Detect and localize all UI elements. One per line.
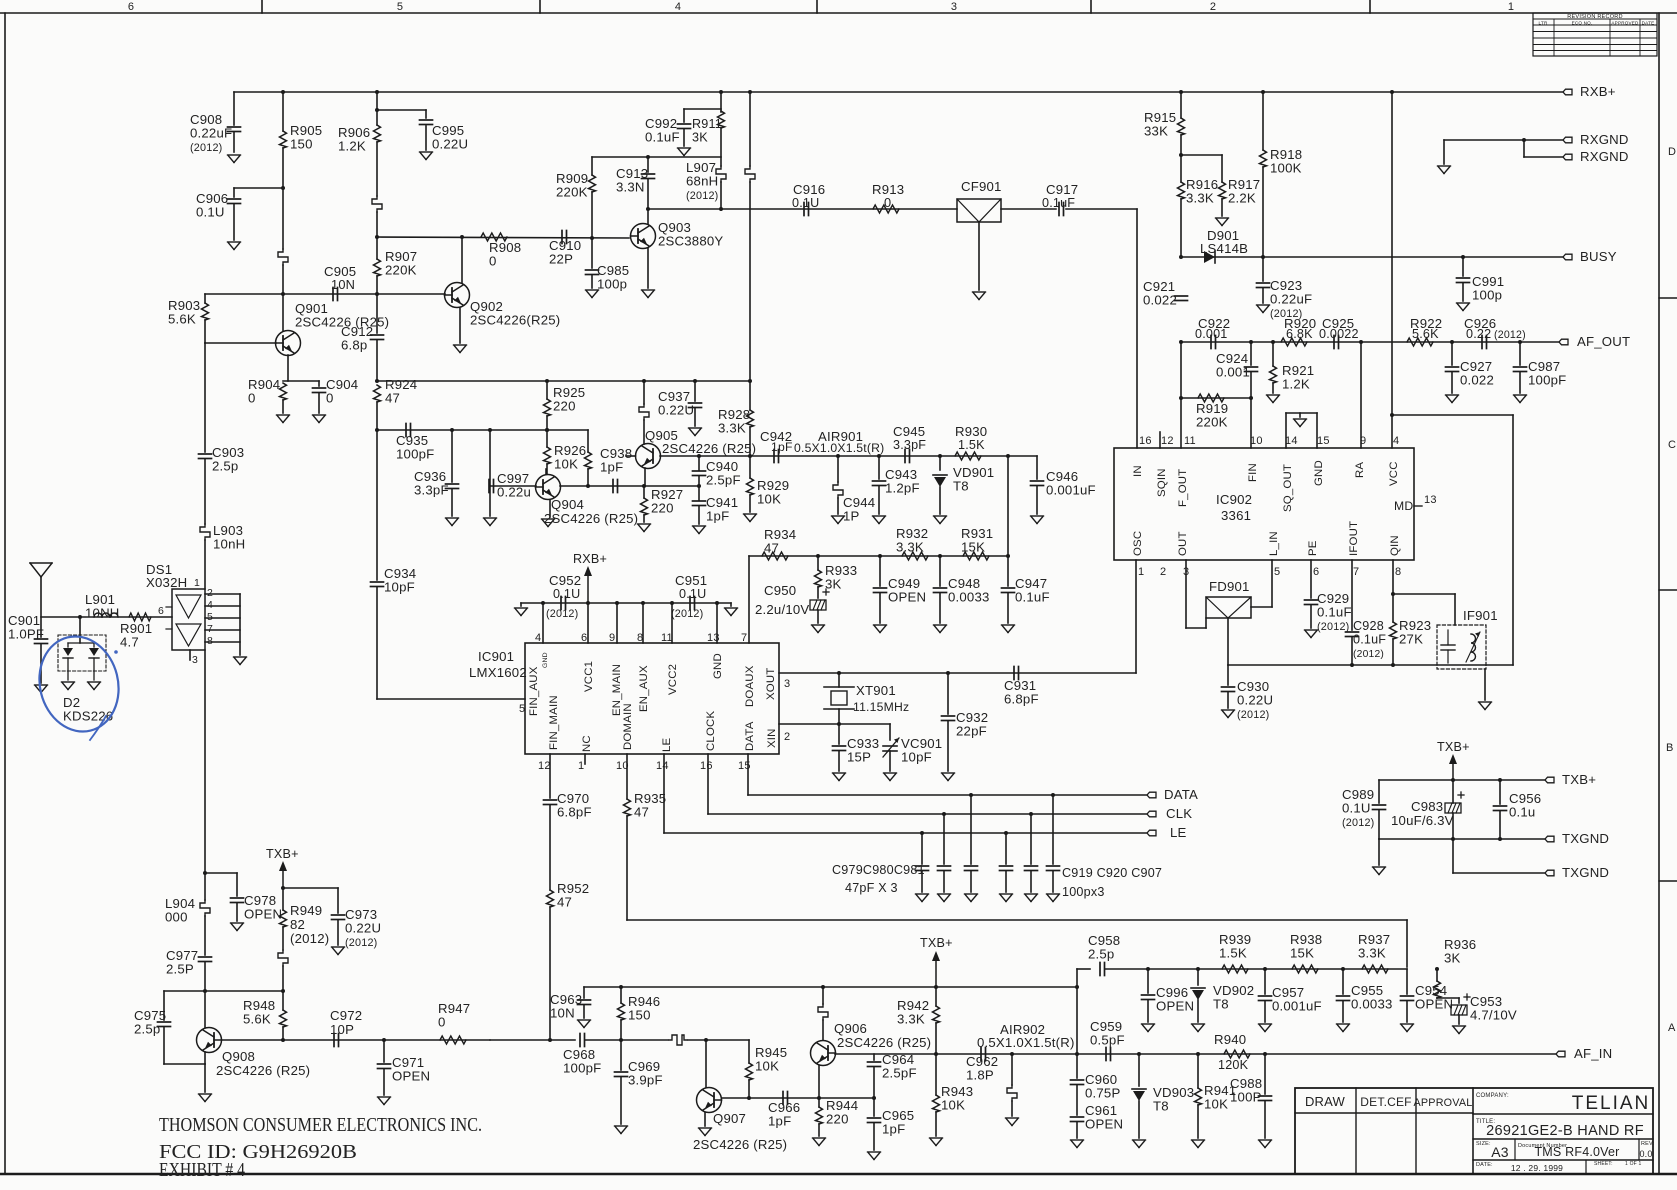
- label C923: [1270, 278, 1312, 320]
- svg-text:OPEN: OPEN: [392, 1069, 430, 1084]
- node: [586, 601, 590, 605]
- wire: [1197, 1105, 1199, 1138]
- node: [934, 1052, 938, 1056]
- wire: [873, 1054, 875, 1060]
- ground: [833, 773, 846, 781]
- wire: [873, 1098, 875, 1116]
- resistor R945: [746, 1063, 753, 1080]
- label IC902v: [1221, 508, 1251, 523]
- ground: [313, 415, 326, 423]
- wire: [644, 485, 699, 487]
- wire RXGND: [1444, 139, 1563, 141]
- svg-text:FIN: FIN: [1247, 463, 1259, 482]
- label C933: [847, 736, 879, 765]
- label R932: [896, 526, 928, 555]
- ground: [88, 682, 101, 690]
- power arrow TXB+ mid: [920, 936, 953, 987]
- wire C995 branch: [377, 109, 426, 111]
- node: [1179, 340, 1183, 344]
- svg-text:100px3: 100px3: [1062, 885, 1105, 899]
- node: [615, 601, 619, 605]
- svg-text:T8: T8: [953, 479, 969, 494]
- capacitor C962: [981, 1048, 986, 1061]
- label C926: [1464, 316, 1496, 331]
- svg-text:0: 0: [326, 391, 334, 406]
- resistor R944: [816, 1107, 823, 1124]
- ground: [1514, 395, 1527, 403]
- wire: [1007, 593, 1009, 623]
- ground: [1222, 710, 1235, 718]
- label Q908v: [216, 1063, 310, 1078]
- resistor R925: [544, 399, 551, 416]
- label R939: [1219, 932, 1251, 961]
- wire Q904 output: [560, 485, 644, 487]
- wire: [489, 486, 491, 516]
- svg-text:L_IN: L_IN: [1268, 531, 1280, 556]
- transistor Q903: [631, 224, 656, 249]
- svg-text:10K: 10K: [755, 1059, 779, 1074]
- label IF901: [1463, 608, 1498, 623]
- ground: [277, 415, 290, 423]
- svg-text:LS414B: LS414B: [1200, 241, 1248, 256]
- node: [1451, 837, 1455, 841]
- label R933: [825, 563, 857, 592]
- svg-text:IF901: IF901: [1463, 608, 1498, 623]
- ground: [884, 773, 897, 781]
- node: [1498, 778, 1502, 782]
- power arrow TXB+ right: [1437, 740, 1470, 780]
- wire VCC net: [1391, 92, 1393, 448]
- wire: [1452, 813, 1454, 839]
- svg-text:10K: 10K: [1204, 1097, 1228, 1112]
- node: [646, 207, 650, 211]
- node: [281, 886, 285, 890]
- label R916: [1186, 177, 1218, 206]
- label TXB+ term: [1562, 772, 1596, 787]
- ground: [642, 290, 655, 298]
- terminal TXGND 2: [1545, 870, 1554, 876]
- node: [545, 428, 549, 432]
- wire IFOUT net: [1351, 560, 1353, 630]
- wire: [1451, 372, 1453, 393]
- wire: [591, 157, 593, 175]
- svg-text:C951: C951: [675, 573, 707, 588]
- capacitor C977: [199, 957, 212, 962]
- label C961: [1085, 1103, 1123, 1132]
- wire: [818, 1098, 820, 1107]
- svg-text:EN_AUX: EN_AUX: [638, 665, 650, 712]
- node: [1390, 413, 1394, 417]
- wire: [698, 476, 700, 486]
- capacitor C928: [1346, 632, 1359, 637]
- node: [1196, 1052, 1200, 1056]
- ground: [1337, 1024, 1350, 1032]
- wire: [1264, 1054, 1266, 1094]
- wire: [688, 1039, 706, 1041]
- wire: [490, 1039, 575, 1041]
- svg-text:220: 220: [553, 399, 576, 414]
- svg-text:9: 9: [1360, 435, 1366, 447]
- resistor R941: [1195, 1088, 1202, 1105]
- capacitor bypass x922: [916, 866, 929, 871]
- label R947: [438, 1001, 470, 1030]
- svg-text:0: 0: [438, 1015, 446, 1030]
- label IC901v: [469, 665, 527, 680]
- svg-text:150: 150: [628, 1008, 651, 1023]
- ground: [725, 608, 738, 616]
- capacitor C988: [1259, 1096, 1272, 1101]
- resistor R948: [280, 1010, 287, 1027]
- svg-text:0: 0: [884, 195, 891, 210]
- wire IC901 pin 4: [542, 603, 544, 643]
- svg-text:0.1U: 0.1U: [553, 587, 580, 601]
- label C975: [134, 1008, 166, 1037]
- wire: [233, 132, 235, 152]
- capacitor C964: [868, 1062, 881, 1067]
- label C979 C980 C981: [832, 863, 925, 877]
- inductor L903: [200, 524, 210, 540]
- wire: [591, 238, 593, 268]
- svg-text:6.8pF: 6.8pF: [1004, 692, 1039, 707]
- node: [1359, 340, 1363, 344]
- svg-text:VCC: VCC: [1388, 461, 1400, 486]
- svg-text:2: 2: [1210, 1, 1216, 13]
- svg-text:220: 220: [826, 1112, 849, 1127]
- wire: [947, 673, 949, 714]
- ground: [199, 1094, 212, 1102]
- pin label SQIN: [1156, 468, 1168, 497]
- wire: [970, 871, 972, 892]
- capacitor C952: [561, 597, 566, 610]
- svg-text:(2012): (2012): [190, 142, 222, 154]
- node: [1261, 90, 1265, 94]
- node: [1006, 454, 1010, 458]
- node: [1261, 255, 1265, 259]
- svg-text:0.22uF: 0.22uF: [190, 126, 232, 141]
- svg-text:OPEN: OPEN: [244, 907, 282, 922]
- svg-text:3K: 3K: [1444, 951, 1461, 966]
- svg-text:(2012): (2012): [1317, 621, 1349, 633]
- variable capacitor VC901: [883, 738, 899, 757]
- label C963: [550, 992, 582, 1021]
- svg-text:0.1uF: 0.1uF: [1042, 196, 1075, 210]
- wire: [376, 92, 378, 125]
- wire: [1523, 140, 1525, 157]
- node: [836, 454, 840, 458]
- label VD903: [1153, 1085, 1194, 1114]
- ground: [446, 518, 459, 526]
- IC U902 3361 box: [1114, 448, 1414, 560]
- wire: [1262, 288, 1264, 303]
- svg-text:47: 47: [764, 541, 779, 556]
- ground: [1133, 1140, 1146, 1148]
- wire: [935, 1112, 937, 1136]
- label C936: [414, 469, 449, 498]
- wire: [204, 873, 206, 900]
- label R911: [692, 117, 722, 145]
- svg-text:6.8K: 6.8K: [1286, 327, 1313, 341]
- node: [1179, 396, 1183, 400]
- svg-text:2: 2: [784, 731, 790, 743]
- capacitor C947: [1002, 588, 1015, 593]
- label RXGND: [1580, 132, 1629, 147]
- svg-text:OUT: OUT: [1177, 531, 1189, 556]
- svg-text:1pF: 1pF: [706, 509, 729, 524]
- wire: [1227, 692, 1229, 708]
- wire DS1 pin stub: [205, 641, 240, 643]
- svg-text:SHEET:: SHEET:: [1594, 1161, 1613, 1167]
- label BUSY: [1580, 249, 1617, 264]
- svg-text:(2012): (2012): [686, 190, 718, 202]
- ground: [1002, 625, 1015, 633]
- capacitor C932: [942, 716, 955, 721]
- label R928: [718, 407, 750, 436]
- ground: [1216, 218, 1229, 226]
- svg-text:0.1U: 0.1U: [679, 587, 706, 601]
- ground: [1071, 1140, 1084, 1148]
- wire: [1443, 140, 1445, 164]
- resistor R901: [129, 613, 151, 621]
- wire: [163, 1027, 165, 1064]
- label R909: [556, 171, 588, 200]
- svg-text:(2012): (2012): [671, 608, 703, 620]
- wire: [1452, 780, 1454, 803]
- wire: [838, 673, 840, 687]
- wire: [1180, 135, 1182, 182]
- wire: [40, 644, 42, 683]
- node: [1350, 663, 1354, 667]
- label C904: [326, 377, 358, 406]
- wire: [282, 927, 284, 950]
- svg-text:R911: R911: [692, 117, 722, 131]
- IC901 pin numbers bottom: [538, 760, 751, 772]
- ground: [1259, 1024, 1272, 1032]
- svg-text:1.8P: 1.8P: [966, 1068, 994, 1083]
- svg-text:C952: C952: [549, 573, 581, 588]
- wire IC901 pin 11: [671, 603, 673, 643]
- node: [375, 108, 379, 112]
- capacitor C970: [544, 800, 557, 805]
- capacitor C995: [420, 120, 433, 125]
- wire DS1 pin stub: [205, 617, 240, 619]
- svg-text:15K: 15K: [1290, 946, 1314, 961]
- svg-text:REV:: REV:: [1641, 1141, 1655, 1147]
- ground: [965, 894, 978, 902]
- svg-text:2SC4226 (R25): 2SC4226 (R25): [544, 511, 638, 526]
- wire: [1181, 154, 1222, 156]
- wire: [749, 381, 751, 410]
- ground: [744, 514, 757, 522]
- pin label EN_AUX: [638, 665, 650, 712]
- svg-text:10NH: 10NH: [85, 606, 120, 621]
- label C912: [341, 324, 373, 353]
- svg-text:2.2u/10V: 2.2u/10V: [755, 602, 809, 617]
- label C908: [190, 112, 232, 154]
- wire: [1011, 1054, 1013, 1085]
- diode VD901: [933, 475, 947, 487]
- pin label SQ_OUT: [1282, 464, 1294, 512]
- label R943: [941, 1084, 973, 1113]
- wire: [204, 459, 206, 524]
- label C916v: [792, 196, 819, 210]
- label VD902: [1213, 983, 1254, 1012]
- pin label OSC: [1132, 531, 1144, 556]
- svg-text:2: 2: [1160, 566, 1166, 578]
- svg-text:D: D: [1668, 146, 1676, 158]
- label C946: [1046, 469, 1096, 498]
- wire: [943, 814, 945, 864]
- capacitor C975: [158, 1022, 171, 1027]
- label C955: [1351, 983, 1393, 1012]
- wire: [694, 381, 696, 401]
- wire: [376, 294, 378, 333]
- ground: [874, 625, 887, 633]
- label C989: [1342, 787, 1374, 829]
- terminal LE: [1147, 830, 1156, 836]
- svg-text:220: 220: [651, 501, 674, 516]
- ground: [578, 1020, 591, 1028]
- resistor R903: [202, 303, 209, 320]
- svg-text:11: 11: [1184, 435, 1196, 447]
- label Q907: [713, 1111, 746, 1126]
- wire: [1262, 257, 1264, 281]
- wire: [939, 593, 941, 623]
- svg-text:15K: 15K: [961, 540, 985, 555]
- wire: [749, 92, 751, 166]
- node: [920, 831, 924, 835]
- wire: [204, 650, 206, 873]
- svg-text:XT901: XT901: [856, 683, 896, 698]
- wire: [683, 129, 685, 146]
- svg-text:COMPANY:: COMPANY:: [1476, 1093, 1509, 1099]
- label C985: [597, 263, 629, 292]
- inductor L901: [94, 613, 118, 617]
- wire: [935, 1023, 937, 1054]
- capacitor C913: [642, 174, 655, 179]
- wire Q905 base stub: [626, 455, 636, 457]
- node: [1179, 255, 1183, 259]
- resistor R921: [1270, 366, 1277, 383]
- wire: [698, 486, 700, 500]
- svg-text:OPEN: OPEN: [888, 590, 926, 605]
- node: [1146, 967, 1150, 971]
- svg-text:0: 0: [248, 391, 256, 406]
- label TXGND 2: [1562, 865, 1609, 880]
- svg-text:FIN_AUX: FIN_AUX: [528, 666, 540, 716]
- resistor R918: [1260, 150, 1267, 167]
- label C929: [1317, 591, 1352, 633]
- node: [488, 428, 492, 432]
- capacitor C955: [1337, 996, 1350, 1001]
- wire Q901 base: [205, 342, 276, 344]
- label R948: [243, 998, 275, 1027]
- wire: [1351, 637, 1353, 665]
- svg-text:5.6K: 5.6K: [243, 1012, 271, 1027]
- svg-text:CLOCK: CLOCK: [705, 711, 717, 751]
- label C987: [1528, 359, 1566, 388]
- svg-text:0.22U: 0.22U: [1237, 693, 1273, 708]
- node: [641, 601, 645, 605]
- svg-text:REVISION RECORD: REVISION RECORD: [1567, 14, 1623, 20]
- wire: [204, 294, 206, 303]
- pin label GND: [712, 653, 724, 679]
- wire: [921, 833, 923, 864]
- IC902 pin numbers top: [1139, 435, 1399, 447]
- capacitor C903: [199, 454, 212, 459]
- svg-text:GND: GND: [542, 652, 549, 668]
- svg-text:IC902: IC902: [1216, 492, 1252, 507]
- wire: [1452, 839, 1454, 873]
- resistor R911: [718, 111, 725, 128]
- wire: [720, 182, 722, 210]
- wire: [943, 871, 945, 892]
- svg-text:47: 47: [634, 805, 649, 820]
- filter CF901: [957, 199, 1001, 222]
- node: [619, 1038, 623, 1042]
- wire: [583, 987, 585, 998]
- svg-text:14: 14: [1285, 435, 1298, 447]
- label C958: [1088, 933, 1120, 962]
- label C928: [1353, 619, 1386, 660]
- svg-text:1 OF 1: 1 OF 1: [1625, 1161, 1642, 1167]
- wire: [939, 556, 941, 586]
- capacitor C989: [1373, 805, 1386, 810]
- svg-text:B: B: [1666, 742, 1674, 754]
- resistor R908: [481, 233, 507, 241]
- wire: [587, 469, 589, 486]
- ground: [934, 516, 947, 524]
- svg-text:0: 0: [489, 254, 497, 269]
- wire: [1250, 372, 1252, 398]
- svg-text:0.22uF: 0.22uF: [1270, 292, 1312, 307]
- svg-text:FIN_MAIN: FIN_MAIN: [548, 695, 560, 750]
- resistor R913: [873, 205, 899, 213]
- stripline TX: [669, 1035, 687, 1045]
- label C942: [760, 429, 792, 444]
- svg-text:5: 5: [207, 611, 213, 623]
- svg-text:14: 14: [656, 760, 669, 772]
- wire: [318, 381, 320, 386]
- wire: [878, 456, 880, 479]
- node: [1435, 967, 1439, 971]
- svg-text:C919 C920 C907: C919 C920 C907: [1062, 866, 1162, 880]
- wire: [1250, 342, 1252, 365]
- svg-text:(2012): (2012): [1237, 709, 1269, 721]
- label R942: [897, 998, 929, 1027]
- label AIR901: [818, 429, 863, 444]
- pin label NC: [581, 735, 593, 752]
- resistor R937: [1362, 965, 1388, 973]
- ground: [1305, 630, 1318, 638]
- svg-text:0.22U: 0.22U: [432, 137, 468, 152]
- wire: [1030, 814, 1032, 864]
- label C951: [675, 573, 707, 588]
- label VC901: [901, 736, 942, 765]
- wire: [1436, 969, 1438, 981]
- node: [837, 671, 841, 675]
- ground: [1373, 867, 1386, 875]
- svg-text:R940: R940: [1214, 1032, 1246, 1047]
- pin label F_OUT: [1177, 469, 1189, 507]
- ground: [1000, 894, 1013, 902]
- svg-text:DOMAIN: DOMAIN: [622, 703, 634, 750]
- svg-text:82: 82: [290, 917, 305, 932]
- wire RXB+ top rail: [234, 91, 1563, 93]
- svg-text:3.3K: 3.3K: [1186, 191, 1214, 206]
- svg-text:RXB+: RXB+: [1580, 84, 1616, 99]
- label C953: [1470, 994, 1517, 1023]
- wire: [376, 430, 378, 580]
